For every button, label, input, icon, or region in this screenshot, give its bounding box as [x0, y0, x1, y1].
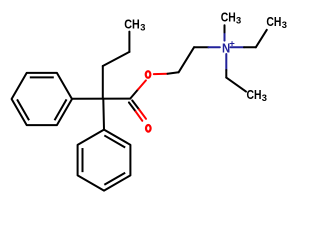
phenyl ring 2 double bond (upper-right edge): [104, 135, 125, 147]
phenyl ring 2 (bottom) outer hexagon: [78, 130, 131, 191]
bond: ethyl CH2 to CH3 upper-right diagonal: [256, 30, 267, 48]
bond: ester O to CH2, red half: [154, 73, 168, 75]
bond: O-CH2 to CH2 diagonal: [179, 47, 195, 72]
bond: N to methyl, blue half: [224, 32, 226, 40]
svg-text:CH: CH: [266, 15, 281, 29]
bond: propyl CH2-CH3 vertical: [128, 32, 130, 52]
atom O (carbonyl oxygen): [146, 125, 151, 132]
bond: carbonyl C to ester O, black half: [130, 89, 138, 98]
phenyl ring 1 double bond (lower-right edge): [55, 99, 67, 120]
bond: CH2 to N, blue half: [209, 46, 220, 48]
bond: N down to ethyl CH2, black half: [225, 70, 227, 78]
svg-text:CH: CH: [124, 18, 140, 32]
bond: quaternary C down to ring2: [102, 99, 105, 130]
bond: quaternary C up (propyl CH2): [102, 66, 104, 99]
phenyl ring 1 double bond (lower-left edge): [17, 99, 29, 120]
phenyl ring 2 double bond (lower-right edge): [104, 173, 125, 185]
phenyl ring 2 double bond (left edge): [82, 148, 84, 172]
double bond C=O line B black part: [129, 102, 136, 111]
svg-text:3: 3: [236, 15, 241, 25]
double bond C=O line A red part: [139, 109, 146, 118]
bond: N to ethyl CH2 right, black half: [244, 46, 256, 48]
bond: lower ethyl CH2 to CH3 diagonal: [226, 78, 246, 92]
svg-text:3: 3: [140, 23, 145, 33]
svg-text:CH: CH: [221, 11, 236, 25]
svg-text:3: 3: [282, 20, 287, 30]
svg-text:3: 3: [262, 93, 267, 103]
bond: N to ethyl CH2 right, blue half: [231, 46, 244, 48]
svg-text:CH: CH: [247, 88, 262, 102]
double bond C=O line A black part: [132, 100, 139, 109]
bond: N to methyl, black half: [224, 25, 226, 32]
double bond C=O line B red part: [136, 111, 143, 120]
phenyl ring 1 (left) outer hexagon: [12, 73, 72, 125]
bond: carbonyl C to ester O, red half: [138, 80, 146, 89]
bond: ring1 to quaternary C and on to carbonyl C (horizontal): [72, 98, 130, 100]
bond: ester O to CH2, black half: [168, 72, 179, 73]
phenyl ring 1 double bond (top edge): [30, 76, 54, 78]
bond: propyl CH2-CH2 diagonal: [103, 52, 130, 66]
bond: N down to ethyl CH2, blue half: [225, 54, 227, 70]
bond: CH2 to N, black half: [194, 46, 208, 48]
atom O (ester oxygen): [146, 71, 151, 78]
